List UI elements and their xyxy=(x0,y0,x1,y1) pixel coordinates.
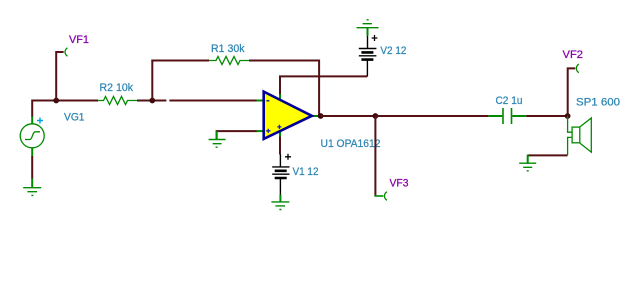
op-amp U1 triangle xyxy=(264,92,312,139)
junction node D (VF3 tap) xyxy=(373,113,379,119)
wire feedback top right segment xyxy=(249,60,319,62)
speaker SP1 bottom pin wire xyxy=(568,137,573,155)
wire VG1 vertical upper xyxy=(31,100,33,118)
svg-text:R2 10k: R2 10k xyxy=(100,82,134,94)
capacitor C2 right lead xyxy=(512,115,526,117)
wire ground drop (green) xyxy=(527,155,529,163)
svg-text:C2 1u: C2 1u xyxy=(496,95,523,107)
svg-text:VG1: VG1 xyxy=(64,111,85,123)
wire VF3 node to C2 xyxy=(375,115,488,117)
wire battery V2 bottom lead (black) xyxy=(366,60,368,77)
svg-text:SP1 600: SP1 600 xyxy=(576,97,620,109)
green stub bottom supply xyxy=(279,131,281,137)
svg-text:VF3: VF3 xyxy=(390,177,409,189)
wire V1 to ground (green) xyxy=(279,195,281,202)
resistor R1 30k xyxy=(209,57,249,65)
svg-text:V1 12: V1 12 xyxy=(293,166,319,178)
speaker SP1 top pin wire xyxy=(568,116,573,132)
ground at +input xyxy=(209,140,226,148)
junction node A (VF1 tap) xyxy=(53,98,59,104)
speaker SP1 body xyxy=(572,127,580,143)
junction node E (speaker/VF2) xyxy=(565,113,571,119)
green stub top supply xyxy=(279,94,281,100)
op-amp plus mark input xyxy=(266,129,270,133)
wire VF2 vertical xyxy=(568,68,576,116)
wire battery V2 top lead (black) xyxy=(367,36,369,49)
svg-text:VF1: VF1 xyxy=(69,34,89,46)
battery V2 xyxy=(359,49,377,60)
VG1 plus mark (cyan) xyxy=(37,118,43,124)
wire V1 bottom lead (black) xyxy=(279,178,281,195)
ground above V2 (inverted) xyxy=(357,20,379,28)
wire bottom supply to V1 (maroon) xyxy=(279,137,281,155)
wire feedback top left segment xyxy=(151,60,209,62)
capacitor C2 plates xyxy=(503,108,512,124)
wire C2 to speaker node xyxy=(526,115,567,117)
wire V+ supply rail xyxy=(280,76,367,94)
wire V1 top lead (black) xyxy=(279,154,281,167)
wire VG1 bottom xyxy=(31,148,33,157)
ground below V1 xyxy=(271,202,289,210)
wire R2 right lead to gap xyxy=(137,100,166,102)
wire VF3 horizontal (green) xyxy=(374,195,383,197)
battery V1 plus mark xyxy=(285,154,291,160)
svg-text:V2 12: V2 12 xyxy=(380,45,406,57)
green stub non-inverting input xyxy=(257,130,264,132)
green stub inverting input xyxy=(257,100,264,102)
junction node C (op-amp output) xyxy=(318,113,324,119)
junction node B (feedback tap) xyxy=(149,98,155,104)
wire feedback right vertical xyxy=(318,60,320,117)
ground below VG1 xyxy=(23,188,41,196)
speaker SP1 horn xyxy=(580,118,591,152)
green stub output xyxy=(312,115,318,117)
voltage generator VG1 circle xyxy=(20,124,44,148)
capacitor C2 left lead xyxy=(488,115,502,117)
wire VF3 vertical xyxy=(374,116,376,196)
battery V1 xyxy=(272,167,289,178)
wire output to VF3 node xyxy=(321,115,376,117)
wire speaker to ground (maroon) xyxy=(528,154,568,156)
probe tip VF2 xyxy=(576,64,578,73)
wire feedback left vertical xyxy=(151,61,153,101)
ground below speaker xyxy=(519,163,536,171)
VG1 waveform xyxy=(25,132,40,140)
resistor R2 10k xyxy=(98,97,137,105)
wire op-amp +input from ground xyxy=(217,131,257,139)
op-amp plus mark supply xyxy=(277,125,281,129)
wire gap to op-amp inverting input xyxy=(169,100,257,102)
svg-text:U1 OPA1612: U1 OPA1612 xyxy=(321,138,381,150)
wire main input horizontal from VG1 corner to R2 xyxy=(32,100,98,102)
op-amp minus mark xyxy=(266,100,269,102)
probe tip VF1 xyxy=(65,48,67,57)
wire to top ground (green) xyxy=(367,28,369,36)
wire VF1 vertical xyxy=(56,52,63,101)
svg-text:VF2: VF2 xyxy=(563,49,584,61)
battery V2 plus mark xyxy=(372,35,378,41)
probe tip VF3 xyxy=(384,192,386,201)
svg-text:R1 30k: R1 30k xyxy=(211,43,245,55)
